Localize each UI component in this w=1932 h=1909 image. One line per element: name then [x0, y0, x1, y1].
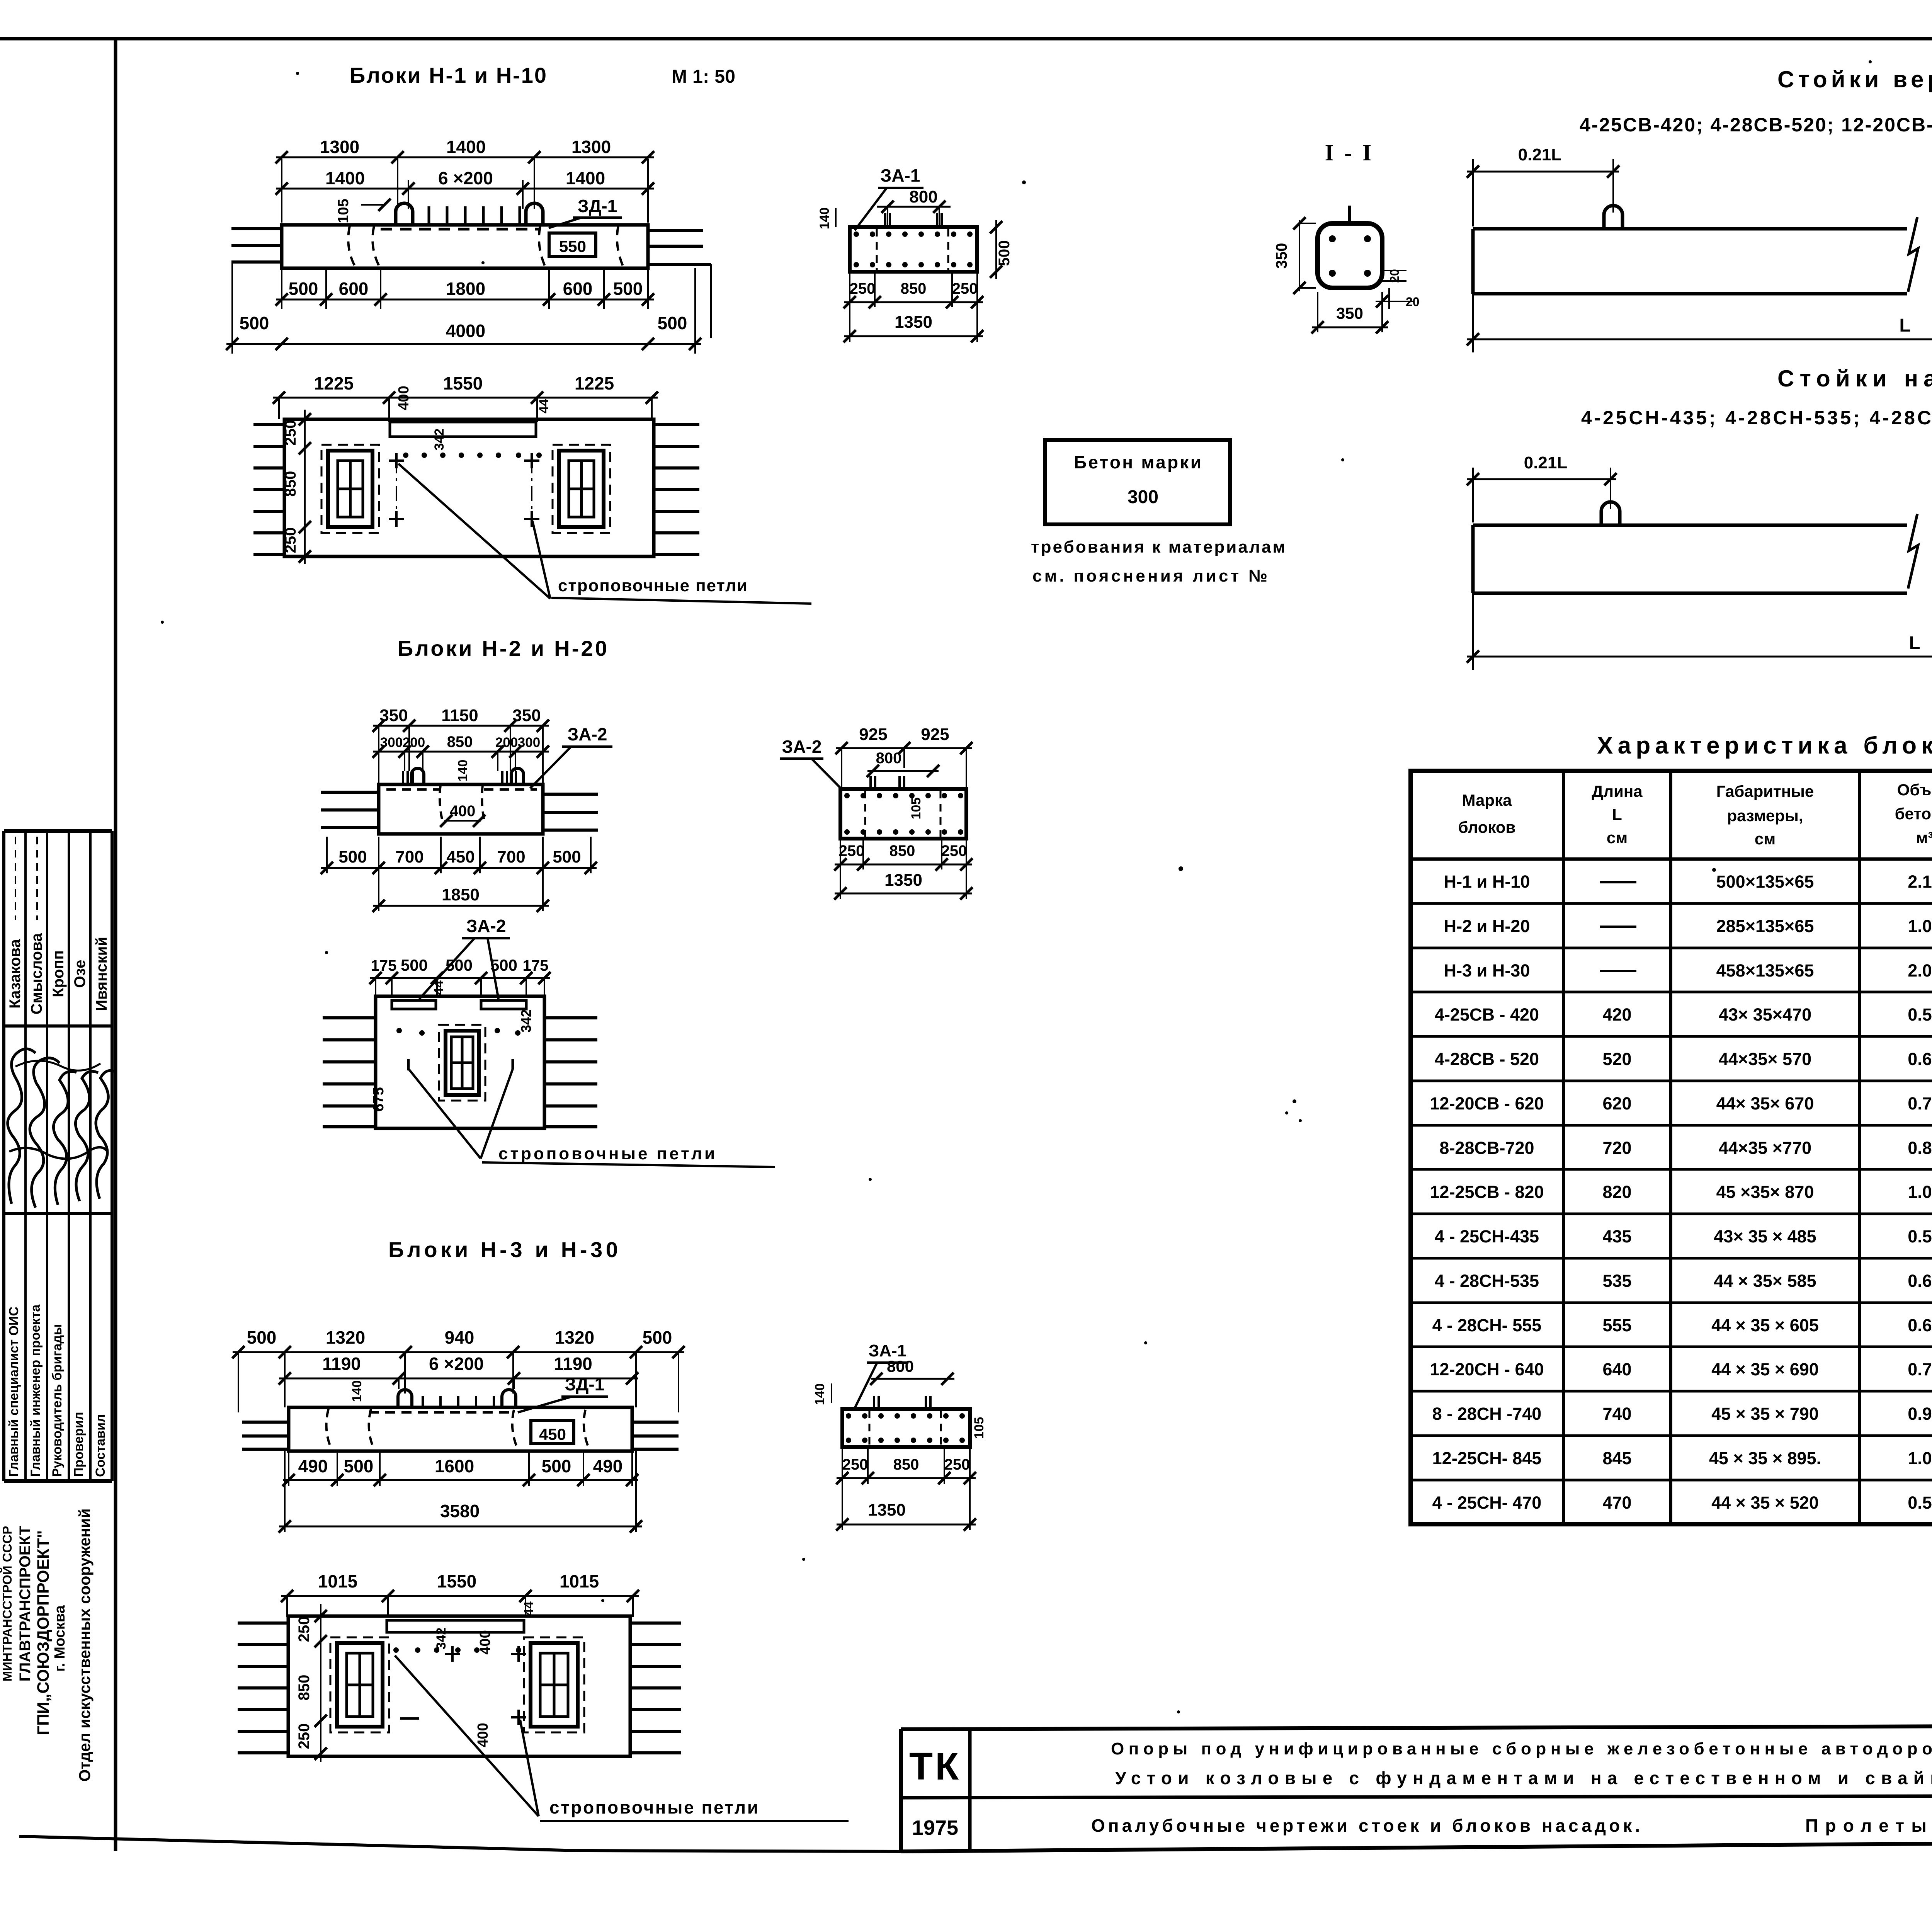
- svg-text:350: 350: [1273, 243, 1290, 269]
- svg-text:ЗД-1: ЗД-1: [578, 196, 617, 216]
- svg-text:845: 845: [1602, 1448, 1631, 1468]
- svg-text:0.64: 0.64: [1908, 1049, 1932, 1069]
- svg-text:700: 700: [395, 847, 423, 866]
- svg-text:1.06: 1.06: [1908, 916, 1932, 936]
- svg-text:2.19: 2.19: [1908, 872, 1932, 892]
- svg-text:4-25СВ - 420: 4-25СВ - 420: [1435, 1005, 1539, 1024]
- svg-text:250: 250: [282, 420, 299, 446]
- svg-text:44×35× 570: 44×35× 570: [1719, 1049, 1811, 1069]
- svg-text:1400: 1400: [446, 137, 486, 157]
- svg-text:Руководитель бригады: Руководитель бригады: [50, 1324, 65, 1477]
- svg-text:105: 105: [909, 798, 923, 820]
- svg-text:4-28СВ - 520: 4-28СВ - 520: [1435, 1049, 1539, 1069]
- svg-text:45 × 35 × 790: 45 × 35 × 790: [1711, 1404, 1819, 1424]
- svg-text:500: 500: [553, 847, 581, 866]
- svg-text:4 - 25СН-435: 4 - 25СН-435: [1435, 1227, 1539, 1246]
- svg-text:140: 140: [817, 208, 832, 230]
- svg-text:размеры,: размеры,: [1727, 806, 1803, 825]
- svg-text:см: см: [1755, 830, 1776, 848]
- svg-text:Блоки Н-2 и Н-20: Блоки Н-2 и Н-20: [398, 636, 609, 660]
- svg-text:800: 800: [876, 750, 902, 767]
- svg-text:1550: 1550: [437, 1571, 476, 1591]
- svg-text:Марка: Марка: [1462, 791, 1512, 809]
- svg-text:ЗА-2: ЗА-2: [782, 737, 822, 757]
- svg-text:4-25СН-435; 4-28СН-535; 4-28СН: 4-25СН-435; 4-28СН-535; 4-28СН-555; 12-2…: [1581, 407, 1932, 429]
- svg-text:1300: 1300: [320, 137, 359, 157]
- svg-text:строповочные петли: строповочные петли: [549, 1797, 758, 1817]
- svg-text:450: 450: [446, 847, 474, 866]
- svg-text:1300: 1300: [571, 137, 611, 157]
- svg-text:ТК: ТК: [909, 1745, 961, 1788]
- svg-text:850: 850: [889, 842, 915, 859]
- svg-text:1350: 1350: [884, 871, 922, 890]
- svg-text:520: 520: [1602, 1049, 1631, 1069]
- svg-text:ЗА-2: ЗА-2: [568, 724, 607, 744]
- svg-text:1190: 1190: [322, 1354, 361, 1374]
- svg-text:200: 200: [495, 735, 518, 750]
- svg-text:500: 500: [446, 956, 473, 974]
- svg-text:0.52: 0.52: [1908, 1005, 1932, 1024]
- svg-text:250: 250: [944, 1456, 970, 1473]
- svg-text:Главный инженер проекта: Главный инженер проекта: [28, 1304, 43, 1477]
- svg-text:1350: 1350: [868, 1501, 906, 1519]
- svg-text:ГПИ„СОЮЗДОРПРОЕКТ": ГПИ„СОЮЗДОРПРОЕКТ": [34, 1530, 53, 1735]
- svg-text:0.66: 0.66: [1908, 1271, 1932, 1291]
- svg-text:1400: 1400: [325, 168, 365, 188]
- svg-text:550: 550: [559, 237, 586, 255]
- svg-text:г. Москва: г. Москва: [52, 1605, 68, 1672]
- svg-text:44× 35× 670: 44× 35× 670: [1716, 1094, 1814, 1113]
- svg-text:300: 300: [518, 735, 540, 750]
- svg-text:342: 342: [434, 1628, 449, 1650]
- svg-text:800: 800: [887, 1357, 914, 1375]
- svg-text:342: 342: [432, 429, 447, 451]
- svg-text:6 ×200: 6 ×200: [429, 1354, 484, 1374]
- svg-text:Бетон марки: Бетон марки: [1074, 452, 1201, 472]
- svg-text:1350: 1350: [895, 313, 932, 332]
- svg-text:350: 350: [1336, 304, 1363, 322]
- svg-text:500: 500: [542, 1456, 571, 1476]
- svg-text:Длина: Длина: [1592, 782, 1643, 800]
- svg-text:105: 105: [972, 1417, 986, 1439]
- svg-text:12-25СВ - 820: 12-25СВ - 820: [1430, 1182, 1544, 1202]
- svg-text:Н-1 и Н-10: Н-1 и Н-10: [1444, 872, 1530, 892]
- svg-text:535: 535: [1602, 1271, 1631, 1291]
- svg-text:м³: м³: [1916, 829, 1932, 847]
- svg-text:640: 640: [1602, 1359, 1631, 1379]
- svg-text:435: 435: [1602, 1227, 1631, 1246]
- svg-text:0.91: 0.91: [1908, 1404, 1932, 1424]
- svg-text:Н-2 и Н-20: Н-2 и Н-20: [1444, 916, 1530, 936]
- svg-text:500: 500: [996, 240, 1013, 266]
- svg-text:44 × 35 × 690: 44 × 35 × 690: [1711, 1359, 1819, 1379]
- svg-text:ЗА-2: ЗА-2: [466, 916, 506, 936]
- svg-text:Габаритные: Габаритные: [1716, 782, 1814, 800]
- svg-text:450: 450: [539, 1425, 566, 1443]
- svg-text:850: 850: [282, 471, 299, 497]
- svg-text:400: 400: [450, 803, 476, 820]
- svg-text:500: 500: [289, 279, 318, 299]
- svg-text:1225: 1225: [314, 373, 354, 393]
- svg-text:350: 350: [512, 706, 541, 725]
- svg-text:700: 700: [497, 847, 525, 866]
- svg-text:105: 105: [335, 199, 352, 223]
- svg-text:1320: 1320: [326, 1327, 365, 1348]
- svg-text:L: L: [1612, 805, 1622, 823]
- svg-text:ГЛАВТРАНСПРОЕКТ: ГЛАВТРАНСПРОЕКТ: [17, 1526, 34, 1682]
- svg-text:620: 620: [1602, 1094, 1631, 1113]
- svg-text:Проверил: Проверил: [71, 1412, 86, 1477]
- svg-text:0.21L: 0.21L: [1524, 453, 1568, 472]
- svg-text:Главный специалист ОИС: Главный специалист ОИС: [7, 1307, 21, 1477]
- svg-text:250: 250: [952, 280, 978, 297]
- svg-text:0.79: 0.79: [1908, 1359, 1932, 1379]
- svg-text:600: 600: [339, 279, 369, 299]
- svg-text:0.68: 0.68: [1908, 1315, 1932, 1335]
- svg-text:8 - 28СН -740: 8 - 28СН -740: [1432, 1404, 1542, 1424]
- svg-text:500: 500: [344, 1456, 374, 1476]
- svg-text:490: 490: [593, 1456, 623, 1476]
- svg-text:250: 250: [842, 1456, 868, 1473]
- svg-text:500: 500: [613, 279, 643, 299]
- svg-text:1400: 1400: [566, 168, 605, 188]
- svg-text:500×135×65: 500×135×65: [1716, 872, 1814, 892]
- svg-text:820: 820: [1602, 1182, 1631, 1202]
- svg-text:1.01: 1.01: [1908, 1182, 1932, 1202]
- svg-text:44: 44: [432, 980, 446, 995]
- svg-text:140: 140: [350, 1380, 364, 1402]
- svg-text:М 1: 50: М 1: 50: [672, 66, 735, 87]
- svg-text:Блоки Н-1 и Н-10: Блоки Н-1 и Н-10: [350, 63, 549, 87]
- svg-text:850: 850: [447, 733, 473, 750]
- svg-text:300: 300: [380, 735, 403, 750]
- svg-text:4 - 28СН-535: 4 - 28СН-535: [1435, 1271, 1539, 1291]
- svg-text:I - I: I - I: [1325, 140, 1374, 165]
- svg-text:L: L: [1899, 315, 1910, 336]
- svg-text:12-20СВ - 620: 12-20СВ - 620: [1430, 1094, 1544, 1113]
- svg-text:250: 250: [282, 527, 299, 553]
- svg-text:0.76: 0.76: [1908, 1094, 1932, 1113]
- svg-text:800: 800: [909, 187, 937, 206]
- svg-text:300: 300: [1128, 487, 1158, 507]
- svg-text:285×135×65: 285×135×65: [1716, 916, 1814, 936]
- svg-text:1550: 1550: [443, 373, 483, 393]
- svg-text:250: 250: [839, 842, 865, 859]
- svg-text:4000: 4000: [446, 321, 485, 341]
- svg-text:850: 850: [901, 280, 927, 297]
- svg-text:500: 500: [401, 956, 428, 974]
- svg-text:400: 400: [396, 386, 412, 410]
- svg-text:925: 925: [921, 725, 949, 744]
- svg-text:45 ×35× 870: 45 ×35× 870: [1716, 1182, 1814, 1202]
- svg-text:МИНТРАНССТРОЙ СССР: МИНТРАНССТРОЙ СССР: [0, 1526, 14, 1682]
- svg-text:Составил: Составил: [93, 1414, 108, 1477]
- svg-text:500: 500: [490, 956, 517, 974]
- svg-text:250: 250: [296, 1616, 313, 1642]
- svg-text:44: 44: [522, 1601, 536, 1616]
- svg-text:4-25СВ-420; 4-28СВ-520; 12-20С: 4-25СВ-420; 4-28СВ-520; 12-20СВ-620; 8-2…: [1580, 114, 1932, 136]
- svg-text:ЗД-1: ЗД-1: [565, 1374, 605, 1394]
- svg-text:44 × 35× 585: 44 × 35× 585: [1714, 1271, 1816, 1291]
- svg-text:250: 250: [850, 280, 876, 297]
- svg-text:140: 140: [813, 1383, 827, 1405]
- svg-text:600: 600: [563, 279, 593, 299]
- svg-text:см. пояснения лист №: см. пояснения лист №: [1032, 567, 1267, 585]
- svg-text:6 ×200: 6 ×200: [438, 168, 493, 188]
- svg-text:0.88: 0.88: [1908, 1138, 1932, 1158]
- svg-text:740: 740: [1602, 1404, 1631, 1424]
- svg-text:140: 140: [456, 760, 470, 782]
- svg-text:675: 675: [371, 1087, 387, 1111]
- svg-text:250: 250: [941, 842, 967, 859]
- svg-text:4 - 25СН- 470: 4 - 25СН- 470: [1432, 1493, 1542, 1513]
- svg-text:925: 925: [859, 725, 887, 744]
- svg-text:400: 400: [475, 1723, 491, 1747]
- svg-text:1800: 1800: [446, 279, 485, 299]
- svg-text:20: 20: [1388, 269, 1401, 283]
- svg-text:1.04: 1.04: [1908, 1448, 1932, 1468]
- svg-text:1600: 1600: [435, 1456, 474, 1476]
- svg-text:Казакова: Казакова: [7, 939, 24, 1009]
- svg-text:1975: 1975: [912, 1816, 958, 1839]
- svg-text:350: 350: [379, 706, 408, 725]
- svg-text:470: 470: [1602, 1493, 1631, 1513]
- svg-text:Объем: Объем: [1897, 781, 1932, 799]
- svg-text:555: 555: [1602, 1315, 1631, 1335]
- svg-text:Озе: Озе: [71, 960, 88, 988]
- svg-text:0.53: 0.53: [1908, 1227, 1932, 1246]
- svg-text:342: 342: [518, 1009, 534, 1033]
- svg-text:требования к материалам: требования к материалам: [1031, 538, 1285, 556]
- svg-text:1015: 1015: [560, 1571, 599, 1591]
- svg-text:ЗА-1: ЗА-1: [881, 165, 920, 185]
- svg-text:44 × 35 × 520: 44 × 35 × 520: [1711, 1493, 1819, 1513]
- svg-text:0.21L: 0.21L: [1518, 145, 1562, 164]
- svg-text:1225: 1225: [575, 373, 614, 393]
- svg-text:720: 720: [1602, 1138, 1631, 1158]
- svg-text:1015: 1015: [318, 1571, 357, 1591]
- svg-text:400: 400: [477, 1630, 493, 1654]
- svg-text:458×135×65: 458×135×65: [1716, 961, 1814, 980]
- svg-text:L: L: [1909, 633, 1920, 653]
- svg-text:Н-3 и Н-30: Н-3 и Н-30: [1444, 961, 1530, 980]
- svg-text:1320: 1320: [555, 1327, 594, 1348]
- svg-text:850: 850: [296, 1675, 313, 1701]
- svg-text:500: 500: [658, 313, 687, 333]
- svg-text:0.58: 0.58: [1908, 1493, 1932, 1513]
- svg-text:44 × 35 × 605: 44 × 35 × 605: [1711, 1315, 1819, 1335]
- svg-text:20: 20: [1406, 295, 1420, 309]
- svg-text:500: 500: [240, 313, 269, 333]
- svg-text:420: 420: [1602, 1005, 1631, 1024]
- svg-text:490: 490: [298, 1456, 328, 1476]
- svg-text:175: 175: [371, 957, 397, 974]
- svg-text:8-28СВ-720: 8-28СВ-720: [1439, 1138, 1534, 1158]
- svg-text:500: 500: [247, 1327, 277, 1348]
- svg-text:Кропп: Кропп: [50, 950, 67, 997]
- svg-text:43× 35×470: 43× 35×470: [1719, 1005, 1811, 1024]
- svg-text:44×35 ×770: 44×35 ×770: [1719, 1138, 1811, 1158]
- svg-text:Смыслова: Смыслова: [28, 933, 45, 1014]
- svg-text:4 - 28СН- 555: 4 - 28СН- 555: [1432, 1315, 1542, 1335]
- svg-text:2.00: 2.00: [1908, 961, 1932, 980]
- svg-text:12-25СН- 845: 12-25СН- 845: [1432, 1448, 1542, 1468]
- svg-text:12-20СН - 640: 12-20СН - 640: [1430, 1359, 1544, 1379]
- svg-text:1850: 1850: [442, 885, 480, 904]
- svg-text:500: 500: [338, 847, 367, 866]
- svg-text:500: 500: [643, 1327, 672, 1348]
- svg-text:3580: 3580: [440, 1501, 480, 1521]
- svg-text:200: 200: [403, 735, 425, 750]
- svg-text:1190: 1190: [554, 1354, 592, 1374]
- svg-text:44: 44: [537, 399, 551, 413]
- svg-text:43× 35 × 485: 43× 35 × 485: [1714, 1227, 1816, 1246]
- svg-text:строповочные петли: строповочные петли: [558, 576, 747, 595]
- svg-text:940: 940: [445, 1327, 474, 1348]
- svg-text:см: см: [1607, 829, 1628, 847]
- svg-text:850: 850: [893, 1456, 919, 1473]
- svg-text:250: 250: [296, 1724, 313, 1749]
- svg-text:блоков: блоков: [1458, 818, 1516, 836]
- svg-text:Ивянский: Ивянский: [93, 937, 110, 1011]
- svg-text:бетона,: бетона,: [1895, 805, 1932, 823]
- svg-text:45 × 35 × 895.: 45 × 35 × 895.: [1709, 1448, 1821, 1468]
- svg-text:1150: 1150: [441, 706, 478, 725]
- svg-text:Отдел искусственных сооружен: Отдел искусственных сооружений: [76, 1508, 94, 1781]
- svg-text:175: 175: [523, 957, 549, 974]
